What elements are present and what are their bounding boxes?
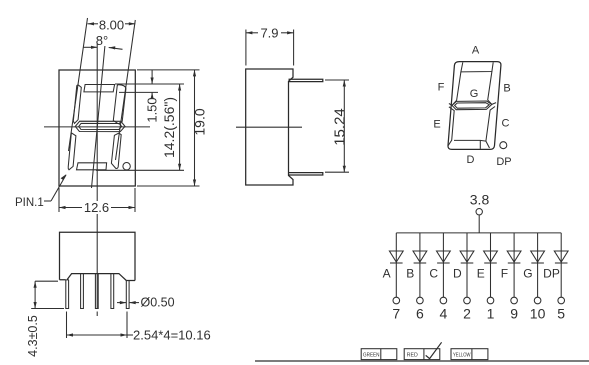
digit segment G outer [75,121,125,131]
digit DP circle [123,163,130,170]
svg-text:E: E [433,119,440,131]
svg-text:Ø0.50: Ø0.50 [141,296,175,310]
svg-text:F: F [438,82,445,94]
svg-text:G: G [523,267,532,281]
svg-text:3.8: 3.8 [470,192,490,208]
dim 8.00 line with arrows [88,22,136,25]
svg-text:1: 1 [487,306,495,322]
svg-text:4: 4 [440,306,448,322]
LED diode A [389,233,403,297]
dim 19.0 extension lines [137,69,200,71]
svg-text:4.3±0.5: 4.3±0.5 [26,315,40,357]
svg-text:D: D [453,267,462,281]
dim 8.00 extension line right (slanted) [116,20,136,160]
dim 7.9 extension lines [245,30,247,66]
dim 15.24 line with arrows [343,80,346,172]
svg-text:F: F [501,267,508,281]
side view top tab [289,79,323,81]
dim 2.54 extension lines [66,312,68,339]
digit segment C [111,133,121,168]
svg-text:5: 5 [557,306,565,322]
bottom border line [255,360,589,362]
front view body [59,70,135,186]
dim 14.2 line with arrows [178,84,181,170]
bottom view pin 4 [111,274,114,309]
segment diagram E inner edge [448,107,454,146]
svg-text:7: 7 [392,306,400,322]
digit segment A [84,85,115,92]
digit segment D [77,163,107,170]
side view outline [246,69,293,185]
dim 19.0 line with arrows [193,70,196,186]
dim 0.50 arrows [117,301,139,304]
schematic anode wire [478,215,480,233]
svg-text:2: 2 [463,306,471,322]
pin terminal circle for G [534,297,541,304]
LED diode DP [554,233,568,297]
svg-text:PIN.1: PIN.1 [15,197,44,209]
digit segment G inner [79,123,122,129]
LED diode B [413,233,427,297]
dim 4.3 line with arrows [34,281,37,308]
bottom view pin 1 [66,280,69,309]
dim 2.54 line with arrows [67,333,134,336]
svg-text:6: 6 [416,306,424,322]
svg-text:7.9: 7.9 [260,25,278,40]
checkbox RED (checked) [404,342,441,359]
LED diode F [507,233,521,297]
bottom view pin 5 [126,281,129,309]
svg-text:GREEN: GREEN [363,352,380,358]
svg-text:B: B [406,267,414,281]
front view vertical centerline [96,44,98,316]
pin terminal circle for E [487,297,494,304]
dim 8.00 extension line left (slanted) [69,18,88,151]
svg-text:10: 10 [530,306,546,322]
dim 4.3 extension lines [35,280,58,282]
dim 1.50 extension lines [115,83,158,85]
side view bottom tab [289,173,323,175]
pin terminal circle for A [393,297,400,304]
checkbox YELLOW [451,349,488,360]
svg-text:2.54*4=10.16: 2.54*4=10.16 [133,328,211,343]
pin terminal circle for F [511,297,518,304]
dim 8 deg slant line [92,46,105,188]
dim 14.2 extension lines [115,83,184,85]
LED diode C [437,233,451,297]
digit segment B [113,85,126,124]
svg-text:YELLOW: YELLOW [453,352,471,358]
side view centerline [236,126,302,128]
schematic anode terminal circle [476,209,482,215]
svg-text:15.24: 15.24 [332,108,349,146]
svg-text:E: E [477,267,485,281]
svg-text:C: C [429,267,438,281]
svg-text:19.0: 19.0 [192,108,208,135]
checkbox GREEN [361,349,397,360]
segment diagram inner line A bottom [461,62,493,72]
bottom view pin 3 [95,274,98,309]
dim 7.9 line with arrows [246,31,294,34]
front view horizontal centerline [44,126,150,128]
dim 15.24 extension lines [325,79,349,81]
LED diode E [484,233,498,297]
svg-text:DP: DP [543,267,560,281]
svg-text:12.6: 12.6 [84,200,109,215]
svg-text:B: B [503,83,510,95]
svg-text:8.00: 8.00 [99,18,124,33]
bottom view pin 2 [81,274,84,309]
svg-text:C: C [502,118,510,130]
svg-text:RED: RED [407,352,418,358]
LED diode D [460,233,474,297]
pin terminal circle for C [440,297,447,304]
segment diagram DP circle [500,142,507,149]
svg-text:A: A [472,45,480,57]
segment diagram F inner edge [449,72,461,105]
svg-text:8°: 8° [96,33,108,48]
dim 12.6 extension lines [58,188,60,212]
svg-text:1.50: 1.50 [145,97,160,122]
pin terminal circle for D [464,297,471,304]
schematic bus wire [396,232,561,234]
LED diode G [531,233,545,297]
bottom view body [60,232,136,280]
digit segment F [73,85,81,123]
PIN.1 leader line with arrow [44,174,67,201]
dim 1.50 line with arrows [151,70,154,99]
svg-text:9: 9 [510,306,518,322]
segment diagram G hexagon outer [452,101,492,110]
digit segment E [68,133,76,170]
svg-text:A: A [383,267,391,281]
segment diagram B inner edge [488,72,496,105]
segment diagram G hexagon inner [455,103,490,109]
pin terminal circle for DP [558,297,565,304]
svg-text:DP: DP [496,156,511,168]
svg-text:14.2(.56"): 14.2(.56") [161,97,177,158]
svg-text:G: G [470,88,479,100]
svg-text:D: D [467,154,475,166]
segment diagram C inner edge [486,107,495,149]
dim 8 deg arrows [83,46,123,50]
segment diagram D bar [454,140,486,149]
dim 12.6 line with arrows [59,206,135,209]
pin terminal circle for B [417,297,424,304]
segment diagram outline [448,62,501,150]
